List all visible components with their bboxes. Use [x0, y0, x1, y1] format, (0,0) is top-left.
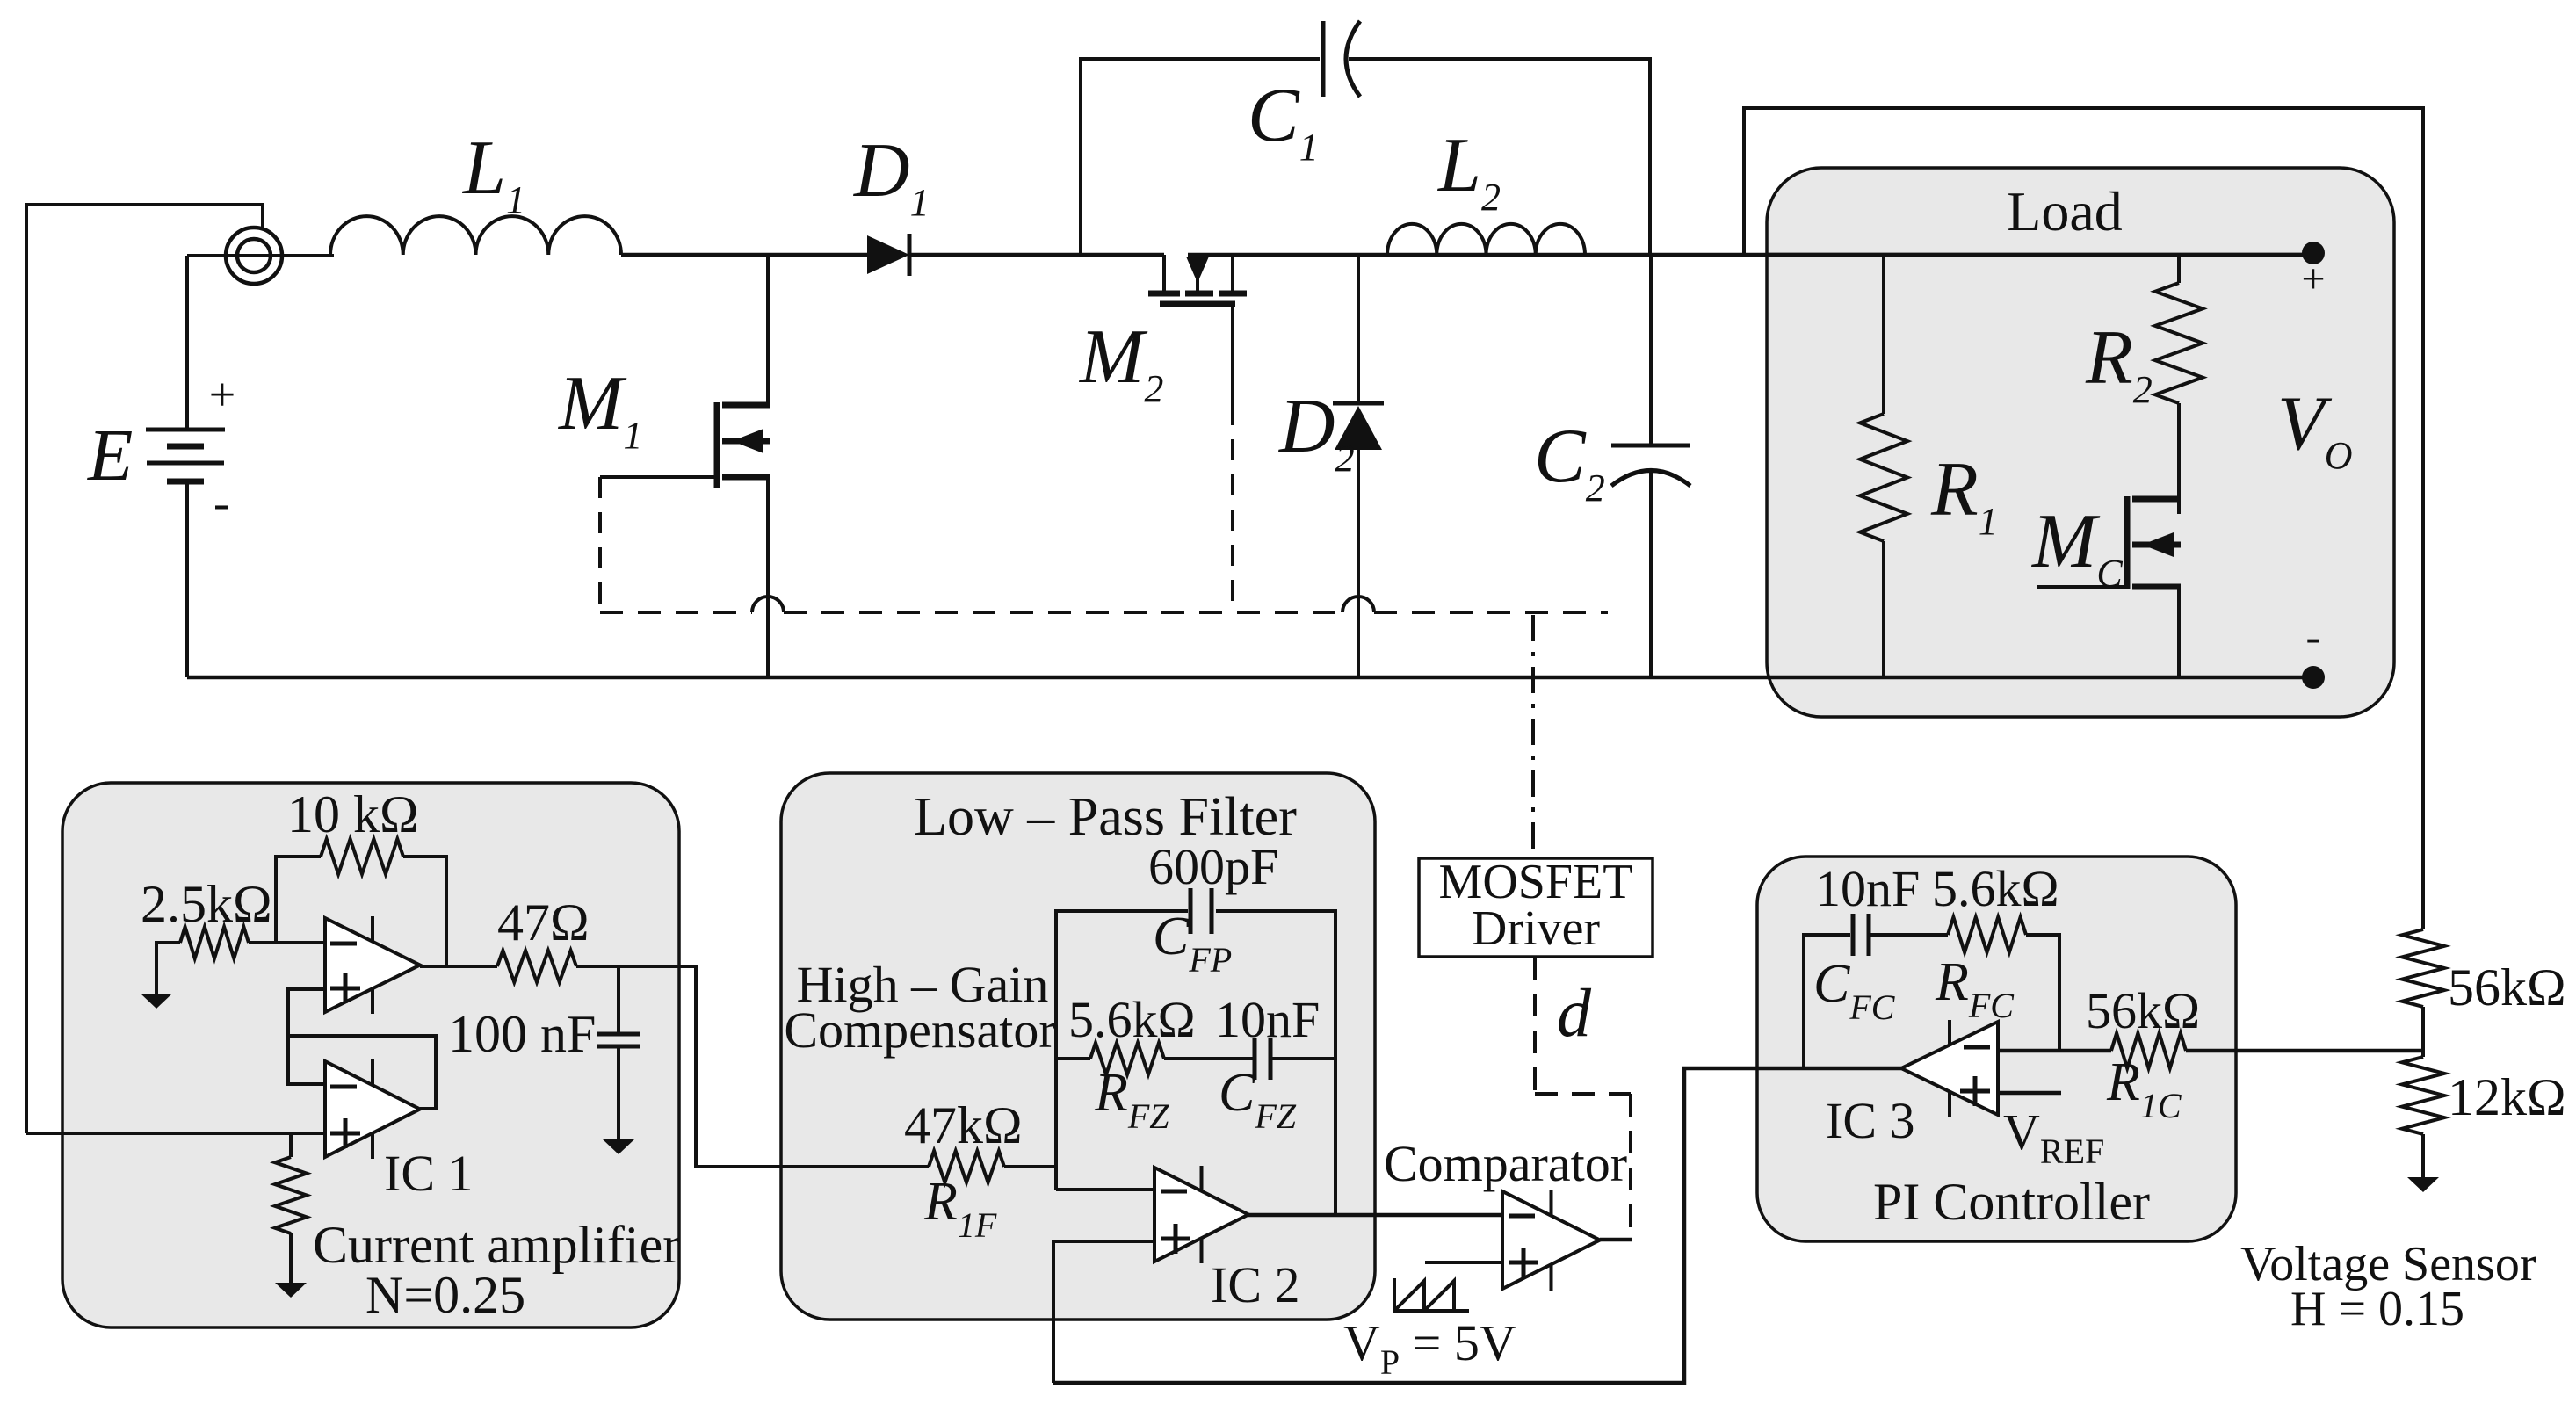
- capacitor C2 label: [1534, 414, 1605, 510]
- wire 47 Ohm to low-pass filter: [576, 966, 929, 1167]
- resistor divider 56k: [2402, 929, 2444, 1007]
- IC1B follower feedback wire: [288, 1036, 436, 1109]
- resistor R1F value label: [904, 1096, 1023, 1154]
- capacitor C2: [1611, 445, 1690, 486]
- battery minus label: [213, 476, 229, 529]
- Current amplifier block enclosure: [62, 783, 679, 1327]
- resistor RFZ value label: [1068, 991, 1196, 1048]
- M2 gate dashed wire: [1231, 307, 1234, 612]
- capacitor 100nF wire: [617, 966, 620, 1034]
- IC 1 label: [384, 1145, 474, 1202]
- wire battery positive to sensor to L1: [187, 256, 334, 430]
- svg-text:PI Controller: PI Controller: [1873, 1173, 2150, 1231]
- svg-text:Driver: Driver: [1472, 901, 1601, 956]
- op-amp IC1A output wire: [420, 965, 497, 968]
- gain-set resistor: [275, 1157, 307, 1233]
- High-Gain Compensator label: [784, 956, 1055, 1059]
- resistor R1F 47k: [929, 1151, 1004, 1182]
- capacitor 100nF ground wire: [617, 1046, 620, 1139]
- battery E label: [87, 415, 133, 496]
- Low-Pass Filter title: [914, 787, 1297, 847]
- resistor 10 kOhm: [321, 839, 403, 874]
- op-amp IC2 minus label: [1161, 1190, 1187, 1194]
- gate drive dashed bus with wire hops: [600, 597, 1608, 612]
- svg-text:100 nF: 100 nF: [448, 1005, 596, 1063]
- wire 2.5k to op-amp inverting input: [249, 941, 325, 944]
- node Vo- minus label: [2305, 612, 2320, 662]
- Load block enclosure: [1767, 168, 2394, 717]
- node Vo- terminal dot: [2302, 666, 2325, 689]
- svg-text:600pF: 600pF: [1148, 838, 1278, 895]
- resistor RFZ 5.6k: [1090, 1043, 1164, 1074]
- Vref stub wire: [1998, 1091, 2061, 1096]
- wire RFZ branch left: [1056, 1057, 1090, 1060]
- wire IC3 inverting input: [1998, 1049, 2111, 1053]
- svg-text:12kΩ: 12kΩ: [2448, 1068, 2566, 1126]
- capacitor CFP 600pF: [1190, 888, 1212, 934]
- capacitor CFZ ref label: [1219, 1063, 1297, 1136]
- svg-text:2.5kΩ: 2.5kΩ: [141, 875, 272, 933]
- wire divider mid node: [2421, 1007, 2425, 1057]
- resistor RFC ref label: [1935, 952, 2015, 1025]
- N=0.25 label: [365, 1266, 525, 1324]
- capacitor 100 nF value label: [448, 1005, 596, 1063]
- wire inverting node to IC2: [1056, 1188, 1154, 1191]
- ground at gain-set resistor: [275, 1283, 307, 1298]
- H = 0.15 label: [2290, 1282, 2464, 1336]
- wire M2 to load (rail): [1188, 253, 2312, 257]
- bottom rail wire: [187, 676, 2313, 680]
- svg-text:+: +: [2301, 256, 2325, 302]
- diode D1: [867, 234, 909, 276]
- Voltage Sensor label: [2240, 1237, 2536, 1291]
- op-amp IC2: [1154, 1166, 1248, 1263]
- diode D2 label: [1278, 384, 1355, 480]
- inductor L1 label: [461, 126, 525, 221]
- resistor 2.5 kOhm value label: [141, 875, 272, 933]
- Low-Pass Filter / High-Gain Compensator block enclosure: [781, 773, 1375, 1320]
- resistor R2 label: [2085, 315, 2153, 411]
- divider 12k value label: [2448, 1068, 2566, 1126]
- svg-text:d: d: [1557, 974, 1592, 1051]
- resistor R2 wires: [2177, 255, 2181, 514]
- op-amp IC3 minus label: [1964, 1045, 1990, 1050]
- Vref label: [2003, 1103, 2104, 1171]
- capacitor CFZ value label: [1215, 991, 1320, 1048]
- capacitor 100 nF: [597, 1034, 640, 1046]
- capacitor C1 right wire: [1349, 59, 1650, 255]
- compensator inner box: [1056, 911, 1335, 1215]
- dash-dot wire driver input d (bus to MOSFET driver): [1531, 615, 1535, 857]
- svg-text:10nF: 10nF: [1215, 991, 1320, 1048]
- svg-text:56kΩ: 56kΩ: [2086, 982, 2200, 1039]
- wire IC2 output to comparator: [1248, 1213, 1502, 1218]
- resistor divider 12k: [2402, 1057, 2444, 1134]
- svg-text:-: -: [213, 476, 229, 529]
- wire CFZ branch right: [1270, 1057, 1335, 1060]
- MOSFET M2 label: [1078, 315, 1163, 410]
- resistor 2.5k ground wire: [156, 943, 180, 994]
- capacitor C2 top wire: [1649, 255, 1653, 445]
- op-amp IC1B plus label: [330, 1118, 360, 1148]
- Load title label: [2007, 180, 2123, 242]
- resistor R1C 56k: [2111, 1033, 2186, 1068]
- resistor 47 Ohm: [497, 951, 576, 982]
- wire IC1B output to IC1A plus input: [288, 989, 325, 1036]
- svg-text:5.6kΩ: 5.6kΩ: [1068, 991, 1196, 1048]
- inductor L2 label: [1436, 123, 1501, 219]
- op-amp comparator minus label: [1509, 1214, 1535, 1219]
- wire IC2 plus input: [1053, 1241, 1154, 1383]
- M1 gate dashed wire: [598, 477, 602, 612]
- op-amp IC1B buffer: [325, 1059, 420, 1159]
- svg-text:10nF: 10nF: [1815, 860, 1920, 917]
- MOSFET MC label: [2030, 499, 2123, 595]
- svg-text:IC 2: IC 2: [1211, 1256, 1300, 1313]
- op-amp IC1A plus label: [330, 973, 360, 1003]
- svg-text:IC 1: IC 1: [384, 1145, 474, 1202]
- gain-set resistor ground wire: [289, 1233, 293, 1283]
- sawtooth ramp symbol: [1394, 1278, 1469, 1311]
- capacitor CFP value label: [1148, 838, 1278, 895]
- op-amp comparator plus label: [1509, 1248, 1538, 1277]
- resistor R1C value label: [2086, 982, 2200, 1039]
- MOSFET Driver label: [1439, 855, 1633, 956]
- wire RFC to inverting node: [2026, 935, 2059, 1051]
- duty cycle d label: [1557, 974, 1592, 1051]
- comparator plus input wire: [1425, 1261, 1502, 1264]
- svg-text:Load: Load: [2007, 180, 2123, 242]
- svg-text:E: E: [87, 415, 133, 496]
- diode D2 bottom wire: [1357, 448, 1360, 677]
- capacitor CFP ref label: [1153, 907, 1232, 980]
- svg-text:56kΩ: 56kΩ: [2448, 958, 2566, 1016]
- resistor R2: [2155, 283, 2203, 403]
- battery E: [146, 430, 225, 481]
- capacitor C1: [1323, 21, 1360, 97]
- wire IC3 output to IC2 plus: [1053, 1068, 1901, 1383]
- wire R1F to inverting node: [1004, 1165, 1056, 1168]
- resistor R1 label: [1930, 447, 1998, 543]
- wire D1 to M2 (rail): [909, 253, 1164, 257]
- IC 2 label: [1211, 1256, 1300, 1313]
- battery plus label: [209, 368, 235, 421]
- gain-set resistor wire: [289, 1133, 293, 1157]
- capacitor C2 bottom wire: [1649, 473, 1653, 677]
- resistor 10k wires: [276, 857, 446, 966]
- capacitor C1 left wire: [1081, 59, 1320, 255]
- current sensor: [226, 228, 282, 284]
- capacitor CFZ 10nF: [1255, 1038, 1270, 1080]
- diode D2: [1333, 403, 1384, 450]
- output voltage sense wire (Vo+ to divider): [1744, 108, 2423, 929]
- divider 56k value label: [2448, 958, 2566, 1016]
- op-amp IC1B minus label: [330, 1085, 357, 1089]
- svg-text:H = 0.15: H = 0.15: [2290, 1282, 2464, 1336]
- svg-text:N=0.25: N=0.25: [365, 1266, 525, 1324]
- svg-text:Compensator: Compensator: [784, 1002, 1055, 1059]
- op-amp IC3 plus label: [1960, 1076, 1990, 1106]
- capacitor CFC value label: [1815, 860, 1920, 917]
- resistor R1F ref label: [923, 1172, 997, 1245]
- output voltage Vo label: [2277, 381, 2353, 477]
- capacitor CFC 10nF: [1853, 914, 1869, 956]
- svg-text:-: -: [2305, 612, 2320, 662]
- wire CFC to RFC: [1869, 933, 1948, 937]
- resistor 47 Ohm value label: [497, 893, 590, 951]
- capacitor CFC wire left: [1804, 935, 1850, 1067]
- capacitor C1 label: [1248, 73, 1319, 169]
- op-amp IC1A: [325, 916, 420, 1014]
- op-amp IC2 plus label: [1161, 1224, 1190, 1254]
- PI Controller label: [1873, 1173, 2150, 1231]
- wire L1 to D1 (rail): [621, 253, 867, 257]
- wire current-sense feedback tap (sensor top to left rail): [26, 205, 263, 1133]
- op-amp IC3: [1901, 1020, 1998, 1117]
- PI Controller block enclosure: [1757, 857, 2236, 1241]
- resistor R1 wires: [1882, 255, 1885, 677]
- divider ground wire: [2421, 1134, 2425, 1177]
- load top rail inside: [1767, 253, 2312, 257]
- node Vo+ plus label: [2301, 256, 2325, 302]
- dashed wire d (driver to comparator path): [1535, 957, 1631, 1240]
- resistor 10 kOhm value label: [287, 785, 419, 843]
- ground at 100nF capacitor: [603, 1139, 634, 1154]
- wire sense input to IC1B plus input: [26, 1132, 325, 1135]
- IC 3 label: [1826, 1092, 1915, 1149]
- op-amp IC1A minus label: [330, 942, 357, 946]
- node Vo+ terminal dot: [2302, 242, 2325, 264]
- comparator output wire: [1600, 1238, 1632, 1242]
- resistor R1C ref label: [2106, 1052, 2182, 1125]
- Current amplifier label: [313, 1216, 680, 1274]
- wire battery negative to bottom rail: [185, 481, 189, 677]
- op-amp comparator: [1502, 1190, 1600, 1291]
- resistor R1: [1860, 414, 1907, 541]
- resistor RFC value label: [1932, 860, 2059, 917]
- svg-text:IC 3: IC 3: [1826, 1092, 1915, 1149]
- wire R1C to voltage divider: [2186, 1049, 2423, 1053]
- MOSFET Driver box: [1419, 858, 1653, 957]
- resistor 2.5 kOhm: [180, 927, 249, 958]
- svg-text:+: +: [209, 368, 235, 421]
- svg-text:Comparator: Comparator: [1384, 1135, 1627, 1192]
- MOSFET M2: [1148, 255, 1247, 304]
- svg-text:5.6kΩ: 5.6kΩ: [1932, 860, 2059, 917]
- wire RFZ to CFZ: [1164, 1057, 1255, 1060]
- Comparator label: [1384, 1135, 1627, 1192]
- svg-text:47kΩ: 47kΩ: [904, 1096, 1023, 1154]
- MOSFET M1 label: [557, 361, 642, 457]
- diode D2 top wire: [1357, 255, 1360, 403]
- svg-text:47Ω: 47Ω: [497, 893, 590, 951]
- capacitor CFC ref label: [1813, 954, 1896, 1027]
- ground at divider: [2407, 1177, 2439, 1192]
- inductor L1: [330, 216, 621, 255]
- svg-text:10 kΩ: 10 kΩ: [287, 785, 419, 843]
- resistor RFZ ref label: [1094, 1063, 1169, 1136]
- MOSFET MC: [2037, 496, 2181, 677]
- ground at 2.5k resistor: [141, 994, 172, 1009]
- inductor L2: [1387, 224, 1585, 255]
- MOSFET M1: [600, 255, 770, 677]
- Vp = 5V label: [1343, 1314, 1516, 1382]
- resistor RFC 5.6k: [1948, 917, 2026, 952]
- diode D1 label: [853, 128, 930, 224]
